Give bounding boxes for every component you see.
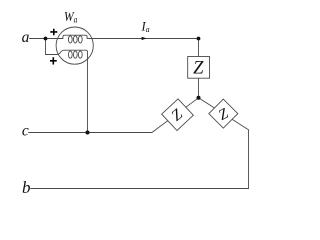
svg-text:b: b [22, 178, 31, 197]
svg-text:Z: Z [193, 59, 204, 79]
svg-text:a: a [22, 29, 30, 46]
svg-text:c: c [22, 123, 29, 140]
